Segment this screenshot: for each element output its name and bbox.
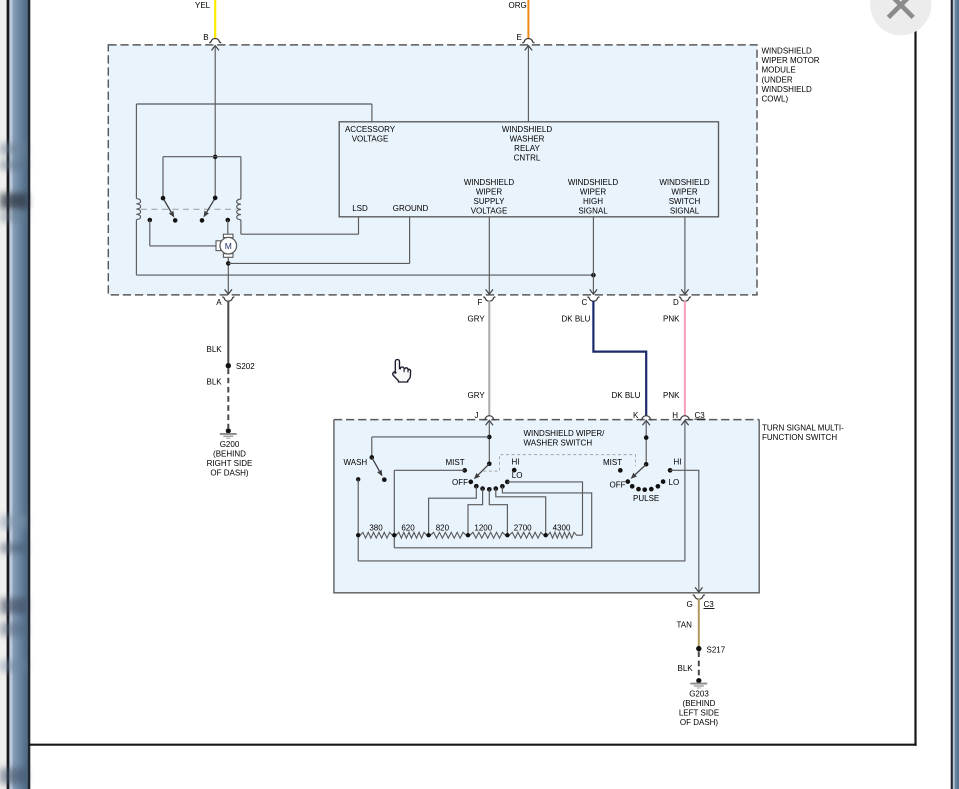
svg-text:WIPER: WIPER — [580, 187, 606, 196]
pulse contact p2 — [636, 487, 641, 492]
wash switch arm — [372, 457, 380, 471]
svg-text:WINDSHIELD: WINDSHIELD — [762, 47, 812, 56]
pin H entry arrow — [681, 420, 688, 425]
svg-text:VOLTAGE: VOLTAGE — [471, 206, 508, 215]
wire park switch feed horizontal — [136, 274, 593, 276]
svg-text:2700: 2700 — [514, 524, 532, 533]
mouse hand cursor — [393, 360, 411, 383]
svg-text:GROUND: GROUND — [393, 204, 429, 213]
svg-text:WASHER SWITCH: WASHER SWITCH — [524, 439, 593, 448]
relay coil 2 — [237, 199, 241, 220]
wire TAN from pin G — [698, 599, 700, 647]
relay 1 left contact — [148, 218, 153, 223]
relay 1 arm rest contact — [173, 218, 178, 223]
splice S202 — [226, 363, 231, 368]
svg-text:LEFT SIDE: LEFT SIDE — [679, 708, 719, 717]
document page border — [914, 0, 916, 746]
turn signal multi-function switch box — [334, 420, 759, 593]
svg-text:K: K — [633, 411, 639, 420]
svg-text:(BEHIND: (BEHIND — [683, 699, 716, 708]
label TURN SIGNAL MULTI-FUNCTION SWITCH — [762, 424, 844, 443]
svg-text:BLK: BLK — [207, 345, 223, 354]
label G203 — [679, 689, 719, 727]
label WINDSHIELD WIPER HIGH SIGNAL — [568, 178, 618, 216]
connector pin F arc — [483, 297, 495, 301]
pin E entry arrow — [525, 46, 532, 51]
wash switch pivot — [370, 455, 375, 460]
node J junction — [487, 435, 492, 440]
wire E to washer relay cntrl — [527, 46, 529, 122]
svg-text:D: D — [673, 298, 679, 307]
svg-text:1200: 1200 — [474, 524, 492, 533]
svg-text:ORG: ORG — [509, 1, 527, 10]
svg-text:OFF: OFF — [610, 481, 626, 490]
lo contact left — [505, 480, 510, 485]
svg-text:C3: C3 — [695, 411, 706, 420]
svg-text:WASHER: WASHER — [510, 134, 545, 143]
hi contact right — [668, 468, 673, 473]
svg-text:HI: HI — [674, 458, 682, 467]
label ACCESSORY VOLTAGE — [345, 125, 396, 144]
pin A exit arrow — [225, 289, 232, 294]
node B feed junction — [213, 155, 218, 160]
pulse contact p5 — [656, 484, 661, 489]
splice S217 — [696, 646, 701, 651]
svg-text:COWL): COWL) — [762, 94, 789, 103]
svg-text:MODULE: MODULE — [762, 66, 796, 75]
wire motor bottom to ground pin — [227, 257, 229, 294]
relay 2 arm rest contact — [200, 218, 205, 223]
hi contact left — [512, 468, 517, 473]
resistor R 2700 — [507, 532, 545, 538]
wire wiper supply voltage vertical — [488, 217, 490, 294]
svg-text:G203: G203 — [689, 689, 709, 698]
module name label — [762, 47, 820, 104]
svg-text:G200: G200 — [220, 440, 240, 449]
delay contact d4 — [493, 486, 498, 491]
wire mist to resistor chain — [394, 469, 464, 471]
blurred browser edge left strip — [0, 0, 7, 789]
svg-text:LSD: LSD — [352, 204, 368, 213]
svg-text:SWITCH: SWITCH — [669, 197, 701, 206]
delay contact d2 — [480, 486, 485, 491]
pulse switch arm — [635, 464, 646, 474]
pulse switch pivot — [644, 462, 649, 467]
svg-text:TURN SIGNAL MULTI-: TURN SIGNAL MULTI- — [762, 424, 844, 433]
wire d1 to node3 — [429, 486, 477, 535]
svg-text:BLK: BLK — [207, 378, 223, 387]
connector pin J arc — [483, 416, 495, 420]
svg-text:C3: C3 — [704, 600, 715, 609]
svg-text:HI: HI — [512, 458, 520, 467]
linkage dashed line — [483, 455, 635, 472]
pulse contact p1 — [630, 484, 635, 489]
svg-text:VOLTAGE: VOLTAGE — [352, 134, 389, 143]
wire relay2 contact to motor top — [227, 220, 229, 234]
mist contact right — [618, 468, 623, 473]
svg-text:S202: S202 — [236, 362, 255, 371]
relay contact arm 2 — [207, 198, 216, 212]
wire to relay coil 2 — [240, 157, 242, 199]
wire wiper switch signal vertical — [684, 217, 686, 294]
svg-text:WINDSHIELD WIPER/: WINDSHIELD WIPER/ — [524, 429, 606, 438]
svg-text:J: J — [475, 411, 479, 420]
svg-text:MIST: MIST — [446, 458, 465, 467]
node motor ground junction — [226, 261, 231, 266]
svg-text:YEL: YEL — [195, 1, 211, 10]
svg-text:WINDSHIELD: WINDSHIELD — [502, 125, 552, 134]
svg-text:WASH: WASH — [344, 458, 368, 467]
pin B entry arrow — [212, 46, 219, 51]
resistor R 1200 — [468, 532, 507, 538]
svg-text:RELAY: RELAY — [514, 144, 540, 153]
svg-text:A: A — [216, 298, 222, 307]
svg-text:4300: 4300 — [553, 524, 571, 533]
label WINDSHIELD WASHER RELAY CNTRL — [502, 125, 552, 163]
label WINDSHIELD WIPER WASHER SWITCH — [524, 429, 606, 448]
svg-text:M: M — [225, 241, 232, 251]
svg-text:PNK: PNK — [663, 314, 680, 323]
wire d5 to bottom loop — [394, 486, 591, 548]
pulse contact p3 — [642, 487, 647, 492]
resistor R 4300 — [546, 532, 579, 538]
wire J to wash switch — [372, 436, 490, 438]
pin C exit arrow — [590, 289, 597, 294]
relay coil 1 — [135, 104, 137, 199]
label WINDSHIELD WIPER SWITCH SIGNAL — [659, 178, 709, 216]
pulse contact p4 — [649, 487, 654, 492]
svg-text:(UNDER: (UNDER — [762, 75, 793, 84]
wire PNK switch signal — [684, 301, 686, 416]
wire wash contact down to chain — [357, 479, 359, 561]
svg-text:SIGNAL: SIGNAL — [670, 206, 700, 215]
wiper control unit box — [339, 122, 718, 217]
svg-text:380: 380 — [369, 524, 383, 533]
delay contact d3 — [487, 487, 492, 492]
relay 1 pivot node — [161, 196, 166, 201]
wire LSD to relay coil 2 — [358, 217, 360, 234]
delay contact d5 — [500, 484, 505, 489]
connector pin H arc — [679, 416, 691, 420]
relay 2 right contact — [226, 218, 231, 223]
relay 2 pivot node — [213, 196, 218, 201]
svg-text:OF DASH): OF DASH) — [210, 468, 249, 477]
resistor R 820 — [429, 532, 468, 538]
svg-text:LO: LO — [669, 478, 680, 487]
off contact left — [468, 480, 473, 485]
wiper mode switch arm — [478, 464, 489, 475]
wire lo to chain end — [507, 482, 582, 535]
svg-text:F: F — [478, 298, 483, 307]
wire wiper high signal vertical — [592, 217, 594, 294]
svg-text:WINDSHIELD: WINDSHIELD — [464, 178, 514, 187]
svg-text:OFF: OFF — [452, 478, 468, 487]
svg-text:ACCESSORY: ACCESSORY — [345, 125, 396, 134]
mist contact left — [462, 468, 467, 473]
lo contact right — [661, 479, 666, 484]
pin G exit arrow — [695, 587, 702, 592]
label G200 — [207, 440, 253, 478]
node high signal junction — [591, 273, 596, 278]
svg-text:H: H — [672, 411, 678, 420]
svg-text:820: 820 — [436, 524, 450, 533]
svg-text:B: B — [203, 33, 208, 42]
node K junction — [644, 435, 649, 440]
wire J feed vertical — [488, 420, 490, 463]
wash arm rest contact — [382, 477, 387, 482]
svg-text:S217: S217 — [707, 646, 726, 655]
connector pin B arc — [209, 38, 221, 42]
svg-text:WINDSHIELD: WINDSHIELD — [762, 85, 812, 94]
svg-text:WIPER MOTOR: WIPER MOTOR — [762, 56, 820, 65]
resistor R 620 — [394, 532, 428, 538]
svg-text:SUPPLY: SUPPLY — [474, 197, 506, 206]
connector pin K arc — [640, 416, 652, 420]
svg-text:GRY: GRY — [468, 391, 486, 400]
svg-text:E: E — [517, 33, 522, 42]
motor M1 wiper motor — [216, 234, 237, 257]
ground G200 — [226, 428, 231, 433]
windshield wiper motor module box (dashed) — [108, 45, 757, 295]
wire B feed vertical — [214, 46, 216, 198]
svg-text:C: C — [582, 298, 588, 307]
off contact right — [625, 479, 630, 484]
wire d3 to node5 — [489, 489, 507, 535]
svg-text:WIPER: WIPER — [476, 187, 502, 196]
wire relay1 contact to motor left — [149, 220, 151, 246]
wire d4 to node6 — [496, 489, 546, 536]
wire to relay 1 pivot — [162, 157, 164, 198]
svg-text:DK BLU: DK BLU — [562, 314, 591, 323]
wire DK BLU high signal — [593, 301, 646, 416]
svg-text:RIGHT SIDE: RIGHT SIDE — [207, 459, 253, 468]
wire motor to GROUND pin of control unit — [228, 262, 409, 264]
svg-text:OF DASH): OF DASH) — [680, 718, 719, 727]
pin J entry arrow — [486, 420, 493, 425]
resistor R 380 — [358, 532, 394, 538]
wire ORG ignition feed — [527, 0, 529, 39]
svg-text:MIST: MIST — [603, 458, 622, 467]
accessory voltage wire top — [136, 103, 372, 105]
svg-text:(BEHIND: (BEHIND — [213, 449, 246, 458]
wire relay feed horizontal — [163, 156, 241, 158]
wire YEL battery feed — [214, 0, 216, 39]
pin D exit arrow — [681, 289, 688, 294]
connector pin C arc — [587, 297, 599, 301]
close button — [870, 0, 931, 35]
connector pin D arc — [679, 297, 691, 301]
ground G203 — [696, 678, 701, 683]
svg-text:SIGNAL: SIGNAL — [578, 206, 608, 215]
wire hi contact to pin G — [670, 470, 699, 592]
connector pin E arc — [522, 38, 534, 42]
wire H down to wash loop — [358, 420, 685, 561]
page left edge line — [28, 0, 30, 789]
delay contact d1 — [474, 484, 479, 489]
pin K entry arrow — [643, 420, 650, 425]
svg-text:TAN: TAN — [677, 620, 693, 629]
blurred browser edge right strip — [951, 0, 953, 789]
svg-text:GRY: GRY — [468, 314, 486, 323]
connector pin A arc — [222, 297, 234, 301]
svg-text:PNK: PNK — [663, 391, 680, 400]
wire BLK dashed to G200 — [227, 369, 229, 429]
connector pin G arc — [693, 595, 705, 599]
svg-text:G: G — [687, 600, 693, 609]
pin F exit arrow — [486, 289, 493, 294]
svg-text:WINDSHIELD: WINDSHIELD — [659, 178, 709, 187]
wash output contact — [356, 477, 360, 481]
wire d2 to node4 — [468, 489, 483, 536]
svg-text:FUNCTION SWITCH: FUNCTION SWITCH — [762, 433, 837, 442]
label WINDSHIELD WIPER SUPPLY VOLTAGE — [464, 178, 514, 216]
wire BLK from pin A — [227, 301, 229, 364]
svg-text:WINDSHIELD: WINDSHIELD — [568, 178, 618, 187]
svg-text:DK BLU: DK BLU — [612, 391, 641, 400]
wire BLK dashed to G203 — [698, 651, 700, 678]
wire GRY supply voltage — [488, 301, 490, 416]
wiper mode switch pivot — [487, 462, 492, 467]
relay contact arm 1 — [163, 198, 171, 212]
svg-text:CNTRL: CNTRL — [514, 153, 541, 162]
svg-text:PULSE: PULSE — [633, 494, 659, 503]
svg-text:BLK: BLK — [678, 664, 694, 673]
svg-text:WIPER: WIPER — [671, 187, 697, 196]
svg-text:620: 620 — [401, 524, 415, 533]
svg-text:HIGH: HIGH — [583, 197, 603, 206]
wire K feed vertical — [645, 420, 647, 464]
chain nodes — [356, 533, 548, 537]
relay actuation dashed line — [141, 208, 237, 210]
